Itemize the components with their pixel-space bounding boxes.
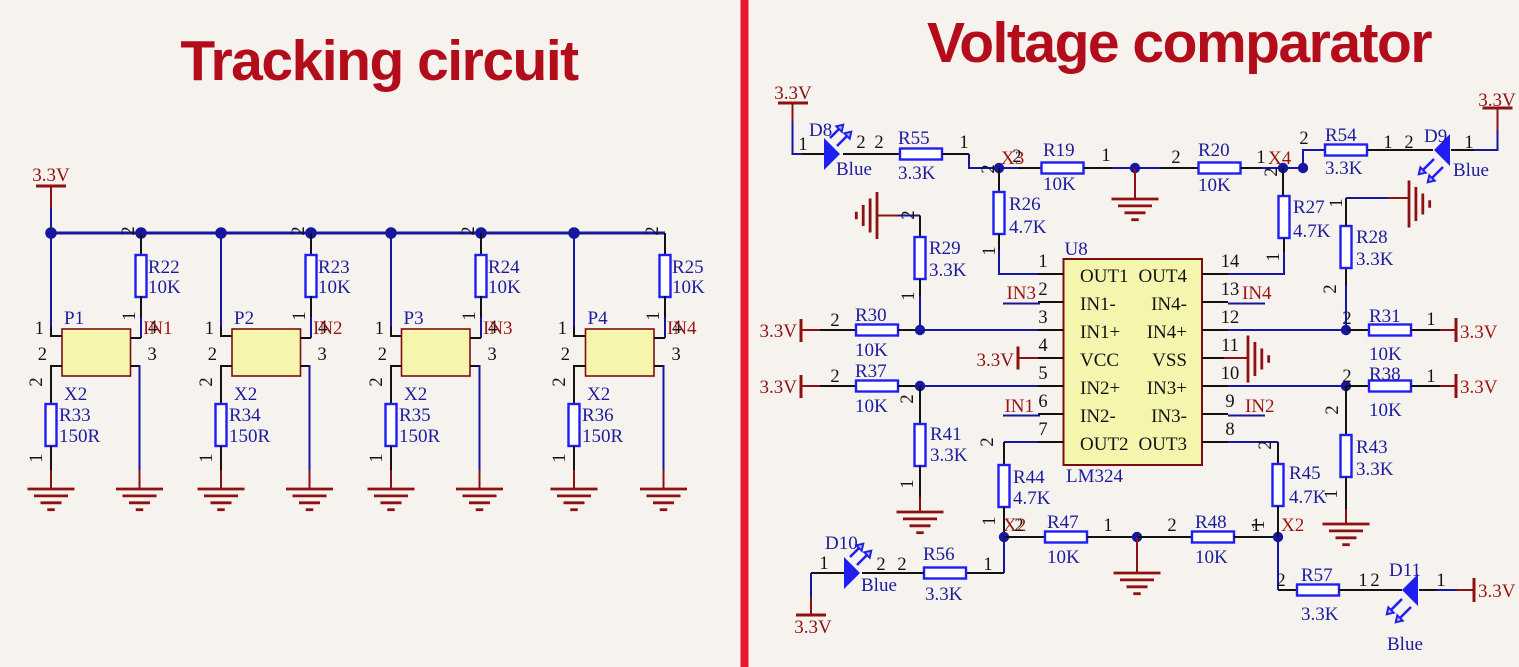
svg-text:1: 1 — [798, 135, 807, 155]
wire net IN2 — [1228, 415, 1265, 417]
ground (left, rotated) — [876, 192, 879, 239]
svg-text:2: 2 — [459, 226, 479, 235]
svg-text:3.3K: 3.3K — [1356, 249, 1394, 270]
svg-text:2: 2 — [1167, 516, 1176, 536]
svg-text:9: 9 — [1225, 392, 1234, 412]
svg-text:OUT1: OUT1 — [1080, 266, 1129, 287]
wire R54 to D9 — [1368, 149, 1434, 151]
svg-text:1: 1 — [1101, 146, 1110, 166]
svg-text:IN1+: IN1+ — [1080, 322, 1120, 343]
wire P1 pin1 — [50, 233, 52, 329]
wire R55 to node X3 — [942, 153, 969, 155]
svg-text:R34: R34 — [229, 405, 261, 426]
resistor R31 — [1369, 325, 1411, 336]
svg-text:2: 2 — [550, 377, 570, 386]
wire R37 to U8 pin 5 — [898, 385, 920, 387]
svg-text:14: 14 — [1221, 252, 1240, 272]
svg-text:2: 2 — [1321, 284, 1341, 293]
wire R48 to node X2 right — [1234, 536, 1278, 538]
ground P4 pin3 branch — [640, 488, 687, 491]
power 3.3V (pin12) — [1455, 318, 1458, 342]
svg-text:2: 2 — [1404, 133, 1413, 153]
wire X2 to R47 — [1004, 536, 1045, 538]
potentiometer P2 — [232, 329, 301, 376]
wire net IN3 — [1003, 303, 1040, 305]
svg-text:OUT3: OUT3 — [1138, 434, 1187, 455]
wire P3 pin2 to R35 — [391, 366, 402, 404]
svg-text:11: 11 — [1221, 336, 1239, 356]
svg-text:1: 1 — [899, 291, 919, 300]
svg-text:P1: P1 — [64, 308, 84, 329]
svg-text:3.3V: 3.3V — [977, 350, 1015, 371]
pin 5 U8 (IN2+) — [1038, 385, 1064, 387]
pin 13 U8 (IN4-) — [1202, 301, 1228, 303]
resistor R23 — [306, 255, 317, 297]
node X2 (left) — [999, 532, 1009, 542]
svg-text:2: 2 — [561, 345, 570, 365]
svg-text:2: 2 — [27, 377, 47, 386]
svg-text:1: 1 — [980, 516, 1000, 525]
svg-text:2: 2 — [1342, 367, 1351, 387]
svg-text:1: 1 — [197, 453, 217, 462]
resistor R37 — [856, 381, 898, 392]
pin 9 U8 (IN3-) — [1202, 413, 1228, 415]
wire R41 to ground — [919, 466, 921, 498]
pin 7 U8 (OUT2) — [1038, 441, 1064, 443]
wire R22 to P1 pin4 — [140, 296, 142, 318]
svg-text:2: 2 — [197, 377, 217, 386]
wire R45 to node X2 — [1277, 506, 1279, 537]
svg-text:2: 2 — [38, 345, 47, 365]
svg-text:2: 2 — [979, 164, 999, 173]
svg-text:IN1: IN1 — [1004, 396, 1034, 417]
wire node to R31 — [1346, 329, 1369, 331]
svg-text:3: 3 — [1038, 308, 1047, 328]
svg-text:4.7K: 4.7K — [1009, 217, 1047, 238]
svg-text:10K: 10K — [855, 396, 888, 417]
svg-text:6: 6 — [1038, 392, 1047, 412]
wire R31 to 3.3V — [1411, 329, 1440, 331]
svg-text:3.3K: 3.3K — [930, 445, 968, 466]
resistor R25 — [660, 255, 671, 297]
node X3 — [994, 163, 1004, 173]
svg-text:2: 2 — [898, 394, 918, 403]
wire U8 pin 10 to R38 — [1228, 385, 1346, 387]
svg-text:D11: D11 — [1389, 560, 1421, 581]
ground P3 pin3 branch — [456, 488, 503, 491]
wire U8 pin 8 to R45 — [1228, 441, 1278, 443]
svg-text:R44: R44 — [1013, 467, 1045, 488]
resistor R34 — [216, 404, 227, 446]
wire X4 to R54 — [1283, 167, 1303, 169]
resistor R30 — [856, 325, 898, 336]
svg-text:2: 2 — [1171, 148, 1180, 168]
junction bus/R23 — [305, 227, 317, 239]
svg-text:2: 2 — [289, 226, 309, 235]
svg-text:2: 2 — [830, 367, 839, 387]
svg-text:R41: R41 — [930, 424, 962, 445]
svg-text:IN1-: IN1- — [1080, 294, 1116, 315]
svg-text:IN2+: IN2+ — [1080, 378, 1120, 399]
svg-text:8: 8 — [1225, 420, 1234, 440]
svg-text:1: 1 — [290, 311, 310, 320]
wire X3 to R19 — [999, 167, 1018, 169]
ground (top center) — [1112, 198, 1159, 201]
svg-text:10K: 10K — [488, 277, 521, 298]
svg-text:D8: D8 — [809, 120, 832, 141]
svg-text:1: 1 — [550, 453, 570, 462]
wire 3.3V bus — [49, 232, 665, 235]
svg-text:D9: D9 — [1424, 126, 1447, 147]
junction bus/R24 — [475, 227, 487, 239]
ground P2 pin3 branch — [286, 488, 333, 491]
wire R30 to U8 pin 3 — [898, 329, 920, 331]
svg-text:2: 2 — [119, 226, 139, 235]
junction R19/R20/ground — [1130, 163, 1140, 173]
svg-text:IN1: IN1 — [143, 318, 173, 339]
wire P2 pin1 — [220, 233, 222, 329]
wire node to R41 — [919, 386, 921, 424]
svg-text:IN4: IN4 — [1242, 283, 1272, 304]
pin 4 U8 (VCC) — [1038, 357, 1064, 359]
svg-text:2: 2 — [1299, 129, 1308, 149]
ground (bottom center) — [1114, 572, 1161, 575]
svg-text:R45: R45 — [1289, 463, 1321, 484]
pin 1 U8 (OUT1) — [1038, 273, 1064, 275]
wire R28 to ground — [1345, 198, 1347, 226]
wire 3.3V to R37 — [820, 385, 856, 387]
wire P1 pin3 to ground — [131, 365, 140, 367]
ground (VSS, rotated) — [1247, 336, 1250, 383]
svg-text:D10: D10 — [825, 533, 858, 554]
wire P1 pin2 to R33 — [51, 366, 62, 404]
resistor R45 — [1273, 464, 1284, 506]
svg-text:VSS: VSS — [1152, 350, 1187, 371]
wire D10 to 3.3V — [811, 572, 844, 574]
svg-text:VCC: VCC — [1080, 350, 1119, 371]
resistor R35 — [386, 404, 397, 446]
svg-text:R31: R31 — [1369, 306, 1401, 327]
svg-text:R37: R37 — [855, 361, 887, 382]
resistor R48 — [1192, 532, 1234, 543]
junction bus/P4 pin1 — [568, 227, 580, 239]
wire D8 to R55 — [843, 153, 900, 155]
svg-text:R29: R29 — [929, 238, 961, 259]
wire node to R38 — [1346, 385, 1369, 387]
svg-text:5: 5 — [1038, 364, 1047, 384]
wire P3 pin1 — [390, 233, 392, 329]
wire X2 to R56 — [1003, 537, 1005, 573]
svg-text:3.3K: 3.3K — [1301, 604, 1339, 625]
wire VSS to ground — [1224, 357, 1249, 359]
wire R34 to ground — [220, 446, 222, 471]
resistor R28 — [1341, 226, 1352, 268]
svg-text:2: 2 — [208, 345, 217, 365]
svg-text:R20: R20 — [1198, 140, 1230, 161]
wire 3.3V to R30 — [820, 329, 856, 331]
svg-text:150R: 150R — [399, 426, 441, 447]
svg-text:IN4: IN4 — [667, 318, 697, 339]
svg-text:R55: R55 — [898, 128, 930, 149]
resistor R29 — [915, 237, 926, 279]
resistor R33 — [46, 404, 57, 446]
pin 12 U8 (IN4+) — [1202, 329, 1228, 331]
svg-text:OUT4: OUT4 — [1138, 266, 1187, 287]
wire R26 to U8 pin 1 — [998, 234, 1000, 251]
resistor R20 — [1199, 163, 1241, 174]
svg-text:3.3V: 3.3V — [794, 617, 832, 638]
svg-text:2: 2 — [1256, 440, 1276, 449]
wire bus to R22 — [140, 233, 142, 255]
potentiometer P1 — [62, 329, 131, 376]
svg-text:10K: 10K — [1195, 547, 1228, 568]
svg-text:2: 2 — [1276, 571, 1285, 591]
svg-text:X4: X4 — [1268, 148, 1292, 169]
svg-text:2: 2 — [1012, 147, 1021, 167]
svg-text:X2: X2 — [587, 384, 610, 405]
wire R35 to ground — [390, 446, 392, 471]
wire node to R43 — [1345, 386, 1347, 435]
wire P2 pin2 to R34 — [221, 366, 232, 404]
resistor R57 — [1297, 585, 1339, 596]
svg-text:X2: X2 — [64, 384, 87, 405]
svg-text:4: 4 — [1038, 336, 1047, 356]
op-amp U8 (LM324) — [1064, 259, 1203, 465]
svg-text:10: 10 — [1221, 364, 1240, 384]
wire R56 to D10 — [862, 572, 924, 574]
wire X3 to R26 — [998, 168, 1000, 192]
junction bus/R22 — [135, 227, 147, 239]
wire R43 to ground — [1345, 477, 1347, 510]
svg-text:2: 2 — [874, 133, 883, 153]
ground P1 pin2 branch — [28, 488, 75, 491]
svg-text:IN2: IN2 — [313, 318, 343, 339]
svg-text:R35: R35 — [399, 405, 431, 426]
svg-text:3.3V: 3.3V — [760, 377, 798, 398]
svg-text:3: 3 — [148, 345, 157, 365]
svg-text:3: 3 — [672, 345, 681, 365]
svg-text:2: 2 — [643, 226, 663, 235]
svg-text:2: 2 — [899, 210, 919, 219]
svg-text:10K: 10K — [148, 277, 181, 298]
ground P2 pin2 branch — [198, 488, 245, 491]
svg-text:R27: R27 — [1293, 197, 1325, 218]
wire R36 to ground — [573, 446, 575, 471]
svg-text:X2: X2 — [404, 384, 427, 405]
svg-text:150R: 150R — [59, 426, 101, 447]
svg-text:1: 1 — [460, 311, 480, 320]
svg-text:R24: R24 — [488, 257, 520, 278]
junction R37/R41/pin5 — [915, 381, 925, 391]
svg-text:X2: X2 — [234, 384, 257, 405]
pin 14 U8 (OUT4) — [1202, 273, 1228, 275]
svg-text:R19: R19 — [1043, 140, 1075, 161]
svg-text:4.7K: 4.7K — [1013, 488, 1051, 509]
svg-text:2: 2 — [1014, 516, 1023, 536]
resistor R44 — [999, 465, 1010, 507]
svg-text:2: 2 — [378, 345, 387, 365]
resistor R56 — [924, 568, 966, 579]
svg-text:1: 1 — [27, 453, 47, 462]
svg-text:1: 1 — [1327, 198, 1347, 207]
svg-text:1: 1 — [644, 311, 664, 320]
wire P3 pin3 to ground — [470, 365, 480, 367]
wire net IN4 — [1228, 303, 1265, 305]
ground P1 pin3 branch — [116, 488, 163, 491]
wire node to R28 — [1345, 284, 1347, 330]
svg-text:OUT2: OUT2 — [1080, 434, 1129, 455]
svg-text:R33: R33 — [59, 405, 91, 426]
resistor R55 — [900, 149, 942, 160]
svg-text:4.7K: 4.7K — [1293, 221, 1331, 242]
resistor R47 — [1045, 532, 1087, 543]
svg-text:2: 2 — [1323, 405, 1343, 414]
svg-text:1: 1 — [120, 311, 140, 320]
svg-text:3.3K: 3.3K — [898, 163, 936, 184]
pin 8 U8 (OUT3) — [1202, 441, 1228, 443]
power 3.3V (bottom left) — [796, 614, 826, 617]
svg-text:R28: R28 — [1356, 227, 1388, 248]
svg-text:2: 2 — [856, 133, 865, 153]
svg-text:10K: 10K — [672, 277, 705, 298]
svg-text:Tracking circuit: Tracking circuit — [180, 29, 579, 93]
svg-text:3.3V: 3.3V — [1478, 90, 1516, 111]
svg-text:R23: R23 — [318, 257, 350, 278]
svg-text:1: 1 — [1358, 571, 1367, 591]
resistor R38 — [1369, 381, 1411, 392]
pin 10 U8 (IN3+) — [1202, 385, 1228, 387]
resistor R24 — [476, 255, 487, 297]
svg-text:1: 1 — [959, 133, 968, 153]
svg-text:1: 1 — [1426, 310, 1435, 330]
LED D8 — [824, 138, 840, 170]
svg-text:IN4+: IN4+ — [1147, 322, 1187, 343]
svg-text:1: 1 — [205, 319, 214, 339]
svg-text:1: 1 — [983, 555, 992, 575]
pin 3 U8 (IN1+) — [1038, 329, 1064, 331]
LED D10 — [844, 557, 860, 589]
wire R57 to D11 — [1339, 589, 1402, 591]
svg-text:R47: R47 — [1047, 512, 1079, 533]
svg-text:1: 1 — [1256, 148, 1265, 168]
wire X2 to R57 — [1277, 537, 1279, 590]
svg-text:R36: R36 — [582, 405, 614, 426]
junction bus/P2 pin1 — [215, 227, 227, 239]
svg-text:R26: R26 — [1009, 194, 1041, 215]
svg-text:150R: 150R — [229, 426, 271, 447]
svg-text:Blue: Blue — [1453, 160, 1489, 181]
svg-text:1: 1 — [1264, 252, 1284, 261]
svg-text:2: 2 — [367, 377, 387, 386]
svg-text:3.3V: 3.3V — [760, 321, 798, 342]
svg-text:2: 2 — [1262, 167, 1282, 176]
svg-text:IN3: IN3 — [1006, 283, 1036, 304]
svg-text:3.3K: 3.3K — [925, 584, 963, 605]
svg-text:U8: U8 — [1065, 239, 1088, 260]
power 3.3V (bottom right) — [1473, 578, 1476, 602]
svg-text:IN4-: IN4- — [1151, 294, 1187, 315]
svg-text:P2: P2 — [234, 308, 254, 329]
svg-text:IN3: IN3 — [483, 318, 513, 339]
svg-text:10K: 10K — [1369, 400, 1402, 421]
wire P4 pin3 to ground — [654, 365, 664, 367]
svg-text:3.3V: 3.3V — [1460, 322, 1498, 343]
svg-text:3.3V: 3.3V — [1460, 377, 1498, 398]
wire P4 pin2 to R36 — [574, 366, 586, 404]
svg-text:3: 3 — [318, 345, 327, 365]
svg-text:3.3V: 3.3V — [32, 165, 70, 186]
svg-text:R38: R38 — [1369, 364, 1401, 385]
wire to ground (top center) — [1134, 168, 1136, 199]
svg-text:Blue: Blue — [861, 575, 897, 596]
wire corner to R29 — [919, 216, 921, 238]
svg-text:13: 13 — [1221, 280, 1240, 300]
svg-text:2: 2 — [1370, 571, 1379, 591]
wire R33 to ground — [50, 446, 52, 471]
node X2 (right) — [1273, 532, 1283, 542]
wire P4 pin1 — [573, 233, 575, 329]
svg-text:R22: R22 — [148, 257, 180, 278]
junction R47/R48/ground — [1132, 532, 1142, 542]
LED D9 — [1434, 134, 1450, 166]
svg-text:1: 1 — [1249, 520, 1269, 529]
svg-text:R48: R48 — [1195, 512, 1227, 533]
svg-text:10K: 10K — [1198, 175, 1231, 196]
resistor R43 — [1341, 435, 1352, 477]
svg-text:1: 1 — [898, 479, 918, 488]
junction R28/R31/pin12 — [1341, 325, 1351, 335]
pin 11 U8 (VSS) — [1202, 357, 1228, 359]
svg-text:1: 1 — [980, 246, 1000, 255]
wire R19 to ground node — [1084, 167, 1113, 169]
wire R20 to node X4 — [1241, 167, 1262, 169]
wire R29 to pin3 node — [919, 279, 921, 297]
svg-text:P4: P4 — [588, 308, 609, 329]
wire X4 to R27 — [1282, 168, 1284, 196]
resistor R36 — [569, 404, 580, 446]
wire R25 to P4 pin4 — [664, 296, 666, 318]
wire R38 to 3.3V — [1411, 385, 1440, 387]
wire D11 to 3.3V — [1419, 589, 1436, 591]
wire bus to R25 — [664, 233, 666, 255]
svg-text:IN3-: IN3- — [1151, 406, 1187, 427]
power 3.3V (top right) — [1483, 107, 1513, 110]
svg-text:IN2: IN2 — [1245, 396, 1275, 417]
wire R24 to P3 pin4 — [480, 296, 482, 318]
svg-text:2: 2 — [978, 437, 998, 446]
svg-text:10K: 10K — [1043, 174, 1076, 195]
resistor R22 — [136, 255, 147, 297]
node X4 — [1278, 163, 1288, 173]
svg-text:1: 1 — [558, 319, 567, 339]
svg-text:10K: 10K — [855, 340, 888, 361]
svg-text:7: 7 — [1038, 420, 1047, 440]
ground (R41) — [897, 511, 944, 514]
power 3.3V (pin10) — [1455, 374, 1458, 398]
divider line — [741, 0, 749, 667]
potentiometer P4 — [586, 329, 655, 376]
svg-text:3.3K: 3.3K — [1356, 459, 1394, 480]
wire ground to R29 — [877, 215, 899, 217]
junction X4 corner — [1298, 163, 1308, 173]
svg-text:1: 1 — [375, 319, 384, 339]
wire R47 to center ground node — [1087, 536, 1137, 538]
svg-text:10K: 10K — [1047, 547, 1080, 568]
svg-text:3.3K: 3.3K — [1325, 158, 1363, 179]
svg-text:LM324: LM324 — [1066, 466, 1124, 487]
svg-text:IN3+: IN3+ — [1147, 378, 1187, 399]
resistor R41 — [915, 424, 926, 466]
